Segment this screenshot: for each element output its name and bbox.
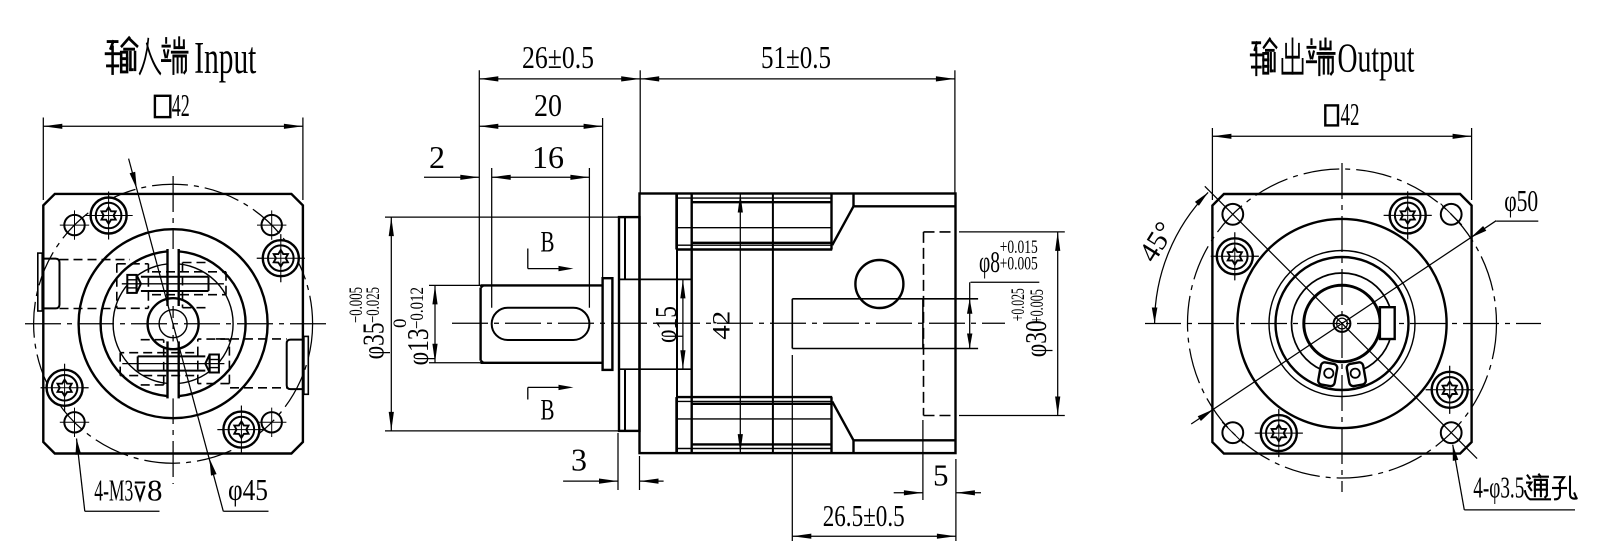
svg-text:42: 42: [1341, 96, 1360, 132]
svg-text:−0.005: −0.005: [346, 287, 367, 323]
svg-text:42: 42: [172, 87, 190, 123]
svg-text:φ50: φ50: [1504, 183, 1538, 218]
svg-text:8: 8: [147, 473, 163, 508]
svg-text:+0.005: +0.005: [1027, 289, 1048, 323]
svg-text:42: 42: [709, 311, 736, 340]
svg-text:φ45: φ45: [228, 472, 268, 507]
svg-text:φ15: φ15: [648, 306, 683, 343]
svg-text:φ13: φ13: [400, 328, 435, 365]
svg-text:16: 16: [532, 139, 564, 175]
svg-text:φ30: φ30: [1018, 320, 1053, 357]
svg-text:0: 0: [390, 319, 411, 329]
svg-text:26.5±0.5: 26.5±0.5: [823, 498, 905, 533]
svg-text:Output: Output: [1338, 35, 1415, 81]
svg-text:+0.025: +0.025: [1008, 288, 1029, 321]
svg-text:Input: Input: [194, 33, 256, 83]
svg-text:5: 5: [933, 458, 949, 493]
svg-text:B: B: [541, 394, 555, 427]
svg-text:4-M3: 4-M3: [94, 473, 133, 508]
svg-text:2: 2: [429, 139, 445, 175]
svg-text:+0.005: +0.005: [1000, 254, 1038, 275]
svg-text:51±0.5: 51±0.5: [761, 39, 831, 75]
svg-text:φ35: φ35: [356, 322, 391, 359]
svg-text:4-φ3.5: 4-φ3.5: [1473, 470, 1524, 505]
svg-text:B: B: [541, 226, 555, 259]
svg-text:20: 20: [534, 87, 562, 123]
svg-text:3: 3: [571, 442, 587, 478]
svg-text:26±0.5: 26±0.5: [522, 39, 594, 75]
svg-text:φ8: φ8: [979, 244, 1000, 279]
